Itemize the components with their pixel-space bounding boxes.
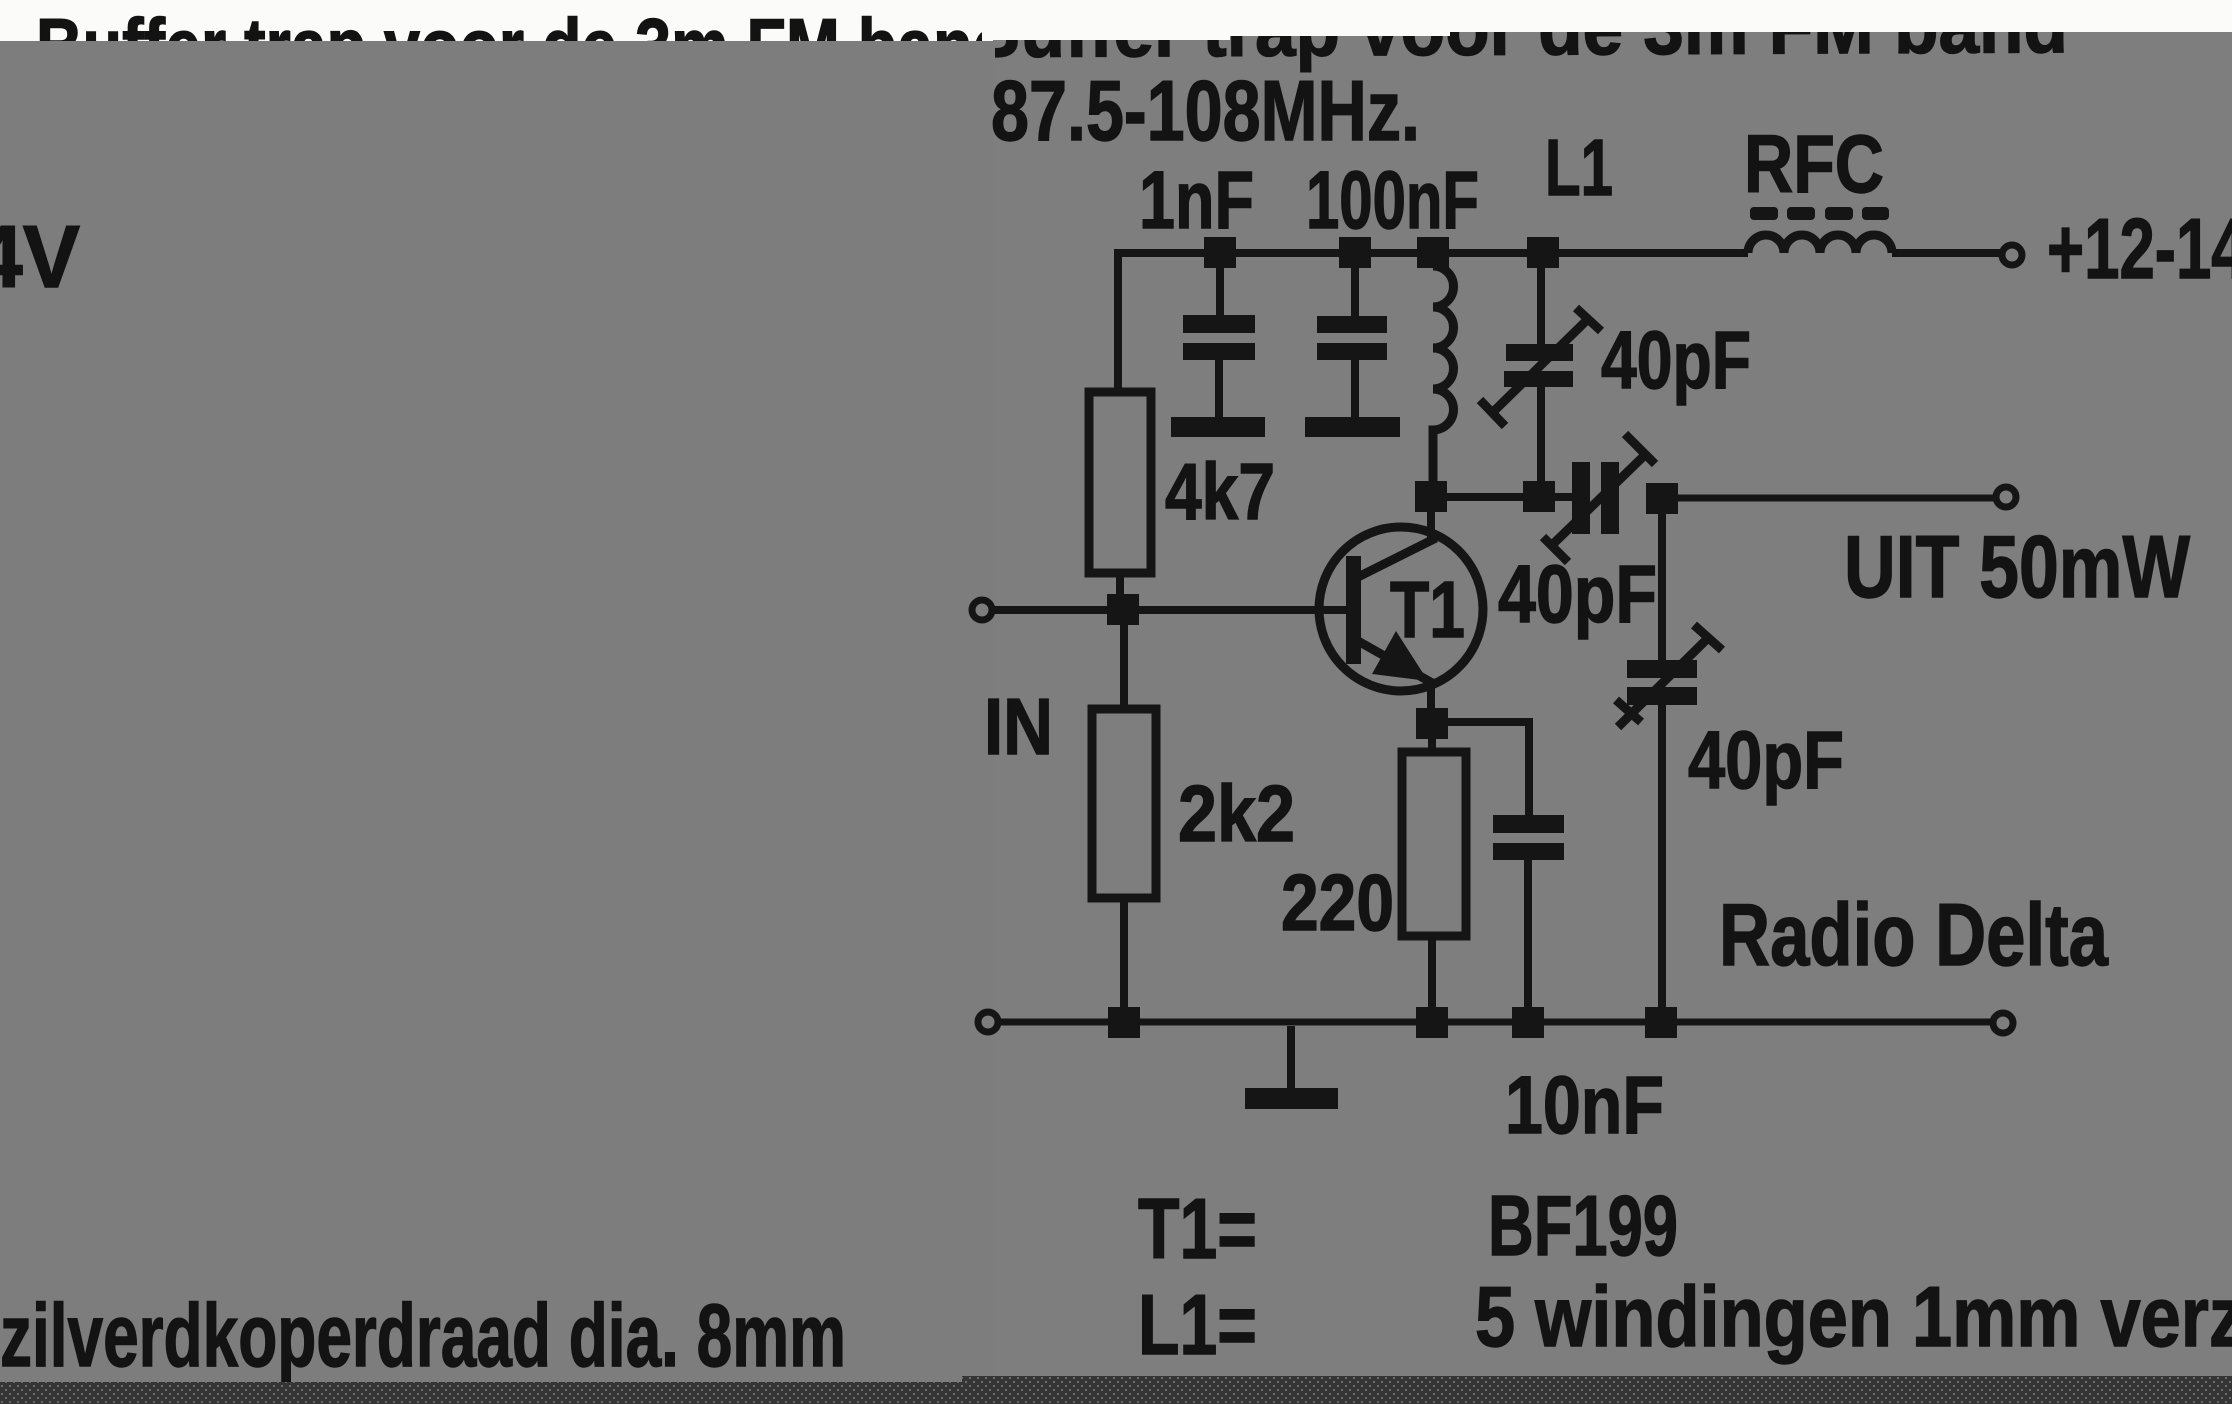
capacitor 1nF [1183,268,1255,417]
wire: 10nF bottom to ground rail [1524,860,1532,1007]
node: emitter junction [1416,708,1448,739]
svg-text:zilverdkoperdraad dia. 8mm: zilverdkoperdraad dia. 8mm [0,1285,846,1385]
scan gray photo area left strip [0,41,993,1382]
svg-text:BF199: BF199 [1488,1179,1678,1274]
svg-text:4V: 4V [0,207,80,306]
inductor L1 [1433,266,1453,483]
ground bar of 100nF [1305,417,1400,437]
svg-text:40pF: 40pF [1601,315,1751,406]
svg-text:L1: L1 [1545,123,1613,212]
svg-text:4k7: 4k7 [1165,447,1275,536]
wire: base node down to 2k2 [1120,625,1128,709]
ground symbol [1287,1026,1295,1088]
white page band covering title top, right strip [982,0,1230,40]
node: trimmer #3 ground junction [1645,1007,1677,1038]
scan gray photo area right strip [993,32,2232,1376]
ground-left terminal [978,1012,998,1032]
RFC choke coil [1748,235,1892,253]
resistor 2k2 [1092,709,1156,898]
svg-text:40pF: 40pF [1498,549,1657,640]
wire: +12V top rail with corner down to R 4k7 [1118,253,2001,392]
node: L1 bottom / collector junction [1415,481,1447,512]
wire: emitter down to 220 [1428,739,1436,752]
svg-text:2k2: 2k2 [1178,769,1295,858]
svg-text:10nF: 10nF [1505,1060,1664,1151]
node: trimmer #1 bottom junction [1523,481,1555,512]
wire: ground rail [1000,1019,1991,1026]
resistor 4k7 [1089,392,1151,573]
svg-text:1nF: 1nF [1139,155,1254,246]
wire: collector node horizontal [1417,493,1572,501]
svg-text:40pF: 40pF [1688,715,1844,806]
RFC core dashes [1750,207,1889,220]
svg-text:5 windingen 1mm verzi: 5 windingen 1mm verzi [1475,1270,2232,1365]
node: 220 ground junction [1416,1007,1448,1038]
svg-text:L1=: L1= [1138,1278,1257,1373]
wire: output to UIT terminal [1678,495,1996,502]
trimmer capacitor 40pF #2 (series coupling) [1543,434,1655,562]
svg-text:IN: IN [984,682,1053,771]
output terminal UIT [1996,487,2016,507]
wire: 4k7 bottom to base node [1116,573,1124,594]
svg-text:100nF: 100nF [1306,155,1479,246]
wire: base wire from IN to T1 [992,606,1346,614]
node: rail / C1nF junction [1204,237,1236,268]
scanner halftone band bottom-right [962,1376,2232,1404]
svg-text:RFC: RFC [1744,119,1884,210]
svg-text:Buffer trap voor de 3m FM band: Buffer trap voor de 3m FM band [36,2,1012,90]
ground-right terminal [1993,1013,2013,1033]
wire: emitter to 10nF corner [1432,722,1529,815]
ground bar of 1nF [1171,417,1265,437]
svg-text:87.5-108MHz.: 87.5-108MHz. [991,64,1420,159]
scanner halftone band bottom-left [0,1382,962,1404]
wire: 220 bottom to ground rail [1428,936,1436,1007]
resistor 220 [1402,752,1466,936]
svg-text:+12-14V: +12-14V [2047,202,2232,297]
node: base junction [1107,594,1139,625]
svg-text:UIT 50mW: UIT 50mW [1844,517,2190,616]
capacitor 100nF [1317,268,1387,417]
node: rail / trimmer C junction [1527,237,1559,268]
terminal +12-14V [2002,245,2022,265]
trimmer capacitor 40pF #3 (output to ground) [1616,514,1722,1007]
node: 10nF ground junction [1512,1007,1544,1038]
node: rail / L1 junction [1417,237,1449,268]
node: output junction [1646,483,1678,514]
node: rail / C100nF junction [1339,237,1371,268]
transistor T1 [1319,481,1483,709]
svg-text:T1=: T1= [1138,1182,1257,1277]
node: 2k2 ground junction [1108,1007,1140,1038]
svg-text:T1: T1 [1390,565,1465,654]
trimmer capacitor 40pF #1 [1480,268,1601,483]
capacitor 10nF [1493,815,1564,860]
wire: 2k2 bottom to ground rail [1120,898,1128,1007]
svg-text:Radio Delta: Radio Delta [1719,885,2109,984]
input terminal IN [972,600,992,620]
svg-text:220: 220 [1281,858,1394,947]
